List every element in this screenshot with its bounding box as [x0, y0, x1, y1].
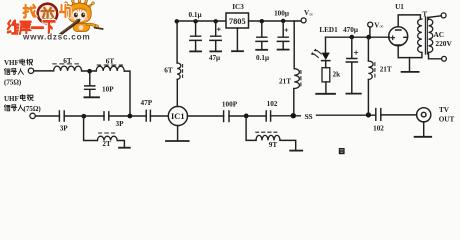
wire to IC1	[150, 115, 168, 117]
wire: down to 9T	[246, 116, 256, 140]
svg-text:47P: 47P	[141, 99, 153, 107]
wire: SS line right	[317, 114, 376, 116]
svg-text:SS: SS	[304, 112, 312, 121]
svg-text:IC1: IC1	[171, 112, 185, 121]
wire IC1 out	[188, 115, 224, 117]
label hao (VHF signal)	[11, 69, 17, 75]
transformer T primary winding	[429, 19, 433, 53]
ground (10P)	[84, 96, 99, 98]
WATERMARK	[8, 0, 103, 41]
label dian (UHF TV)	[20, 95, 25, 101]
svg-text:T: T	[422, 10, 427, 18]
watermark char zhao	[24, 5, 36, 18]
transformer T core	[425, 17, 427, 54]
wire: VHF drop to UHF line	[124, 71, 130, 116]
inductor L5 2T	[97, 136, 117, 140]
regulator IC3 7805 box	[226, 13, 249, 28]
svg-text:7805: 7805	[229, 17, 246, 26]
svg-text:21T: 21T	[380, 66, 392, 74]
svg-text:21T: 21T	[279, 78, 291, 86]
inductor L7 21T (to SS line)	[367, 37, 369, 61]
ground (9T)	[290, 150, 302, 152]
wire: vertical line rail to 6T coil	[176, 21, 178, 63]
watermark lens	[37, 3, 59, 25]
svg-text:0.1μ: 0.1μ	[188, 11, 201, 19]
wire: +V rail from 6T tap to Vcc terminal	[177, 20, 301, 22]
inductor L1 6T (first)	[54, 66, 82, 71]
wire: down to 2T	[84, 116, 98, 140]
svg-text:0.1μ: 0.1μ	[256, 54, 269, 62]
node: rail cap A junction	[193, 19, 197, 23]
label hao (UHF signal)	[11, 105, 17, 111]
node: rail cap C junction	[260, 19, 264, 23]
svg-text:3P: 3P	[116, 120, 125, 128]
label dian (VHF TV)	[20, 59, 25, 65]
label tu (figure)	[339, 148, 345, 154]
terminal: UHF input (75 ohm)	[30, 113, 35, 118]
svg-text:6T: 6T	[164, 67, 173, 75]
capacitor 0.1u (output side)	[256, 21, 267, 50]
label xin (UHF signal)	[4, 105, 10, 111]
terminal Vcc (psu)	[369, 27, 371, 35]
wire	[271, 115, 301, 117]
capacitor 10P to ground	[85, 71, 95, 97]
svg-text:UHF: UHF	[4, 95, 19, 103]
svg-text:OUT: OUT	[439, 116, 455, 124]
terminal Vcc (rail end)	[301, 18, 306, 23]
svg-text:220V: 220V	[435, 39, 452, 48]
capacitor 0.1u (input side)	[190, 21, 201, 51]
node C junction 3P/2T	[82, 114, 87, 119]
ground (cap 0.1u out)	[256, 49, 267, 51]
wire primary top to AC terminal	[429, 16, 442, 20]
terminal AC bottom	[442, 56, 447, 61]
ground (cap 47u)	[210, 50, 221, 52]
svg-text:TV: TV	[439, 106, 450, 114]
svg-text:100μ: 100μ	[274, 9, 289, 17]
terminal AC top	[441, 13, 446, 18]
svg-text:IC3: IC3	[232, 3, 244, 11]
wire UHF in	[36, 115, 60, 117]
svg-text:470μ: 470μ	[343, 26, 358, 34]
ground (470u)	[346, 93, 360, 95]
node: rail cap B junction	[214, 19, 218, 23]
svg-text:www.dzsc.com: www.dzsc.com	[22, 32, 90, 41]
svg-text:10P: 10P	[102, 86, 114, 94]
capacitor 100u electrolytic	[277, 21, 288, 49]
capacitor C 47u electrolytic	[210, 21, 221, 51]
svg-text:2T: 2T	[102, 140, 111, 148]
svg-text:VHF: VHF	[4, 59, 19, 67]
node: rail cap D junction	[281, 19, 285, 23]
inductor L3 6T (vertical, to IC1)	[177, 63, 181, 79]
wire 2T to ground	[117, 141, 124, 148]
wire VHF in	[34, 70, 54, 72]
wire	[64, 115, 104, 117]
ground (7805)	[232, 50, 243, 52]
label xin (VHF signal)	[4, 68, 10, 74]
svg-text:3P: 3P	[60, 124, 69, 132]
inductor L4 21T (from rail down to SS node)	[293, 21, 295, 69]
capacitor 3P (second)	[104, 112, 109, 120]
svg-text:100P: 100P	[222, 101, 238, 109]
wire: 6T to IC1 top	[176, 79, 178, 106]
svg-text:AC: AC	[433, 30, 444, 39]
ground (IC1)	[166, 140, 189, 142]
node H rail/470u	[350, 35, 355, 40]
ground (2k)	[316, 93, 335, 95]
wire to TV OUT	[381, 114, 417, 116]
svg-text:(75Ω): (75Ω)	[24, 105, 42, 113]
wire TV OUT shield to ground	[423, 122, 425, 137]
node G junction 21T-right	[366, 112, 371, 117]
svg-text:(75Ω): (75Ω)	[4, 78, 22, 86]
wire U1 ac in from transformer	[398, 15, 420, 27]
wire	[109, 115, 146, 117]
wire 9T to ground	[280, 140, 296, 150]
capacitor 47P	[146, 110, 150, 121]
inductor L6 9T	[256, 135, 280, 140]
label ru (UHF signal)	[18, 105, 23, 111]
terminal: VHF input (75 ohm)	[28, 68, 33, 73]
wire primary bottom to AC terminal	[429, 53, 442, 59]
resistor R1 2k	[322, 68, 330, 82]
label shi (UHF TV)	[27, 95, 33, 101]
wire	[229, 115, 266, 117]
label ru (VHF signal)	[18, 69, 23, 75]
ground (cap 100u)	[278, 49, 289, 51]
svg-text:102: 102	[267, 100, 278, 108]
transformer T secondary winding	[418, 19, 422, 53]
watermark char pian	[60, 5, 70, 17]
svg-text:102: 102	[373, 125, 384, 133]
node D junction VHF/UHF	[127, 114, 132, 119]
capacitor 100P	[224, 111, 229, 122]
capacitor 470u electrolytic	[346, 37, 357, 93]
wire	[82, 70, 97, 72]
watermark pen handle	[60, 21, 79, 35]
LED LED1	[325, 37, 327, 52]
svg-text:6T: 6T	[63, 57, 72, 65]
svg-text:6T: 6T	[106, 57, 115, 65]
ground (TV OUT)	[415, 136, 432, 138]
label shi (VHF TV)	[27, 59, 33, 65]
svg-text:47μ: 47μ	[209, 54, 220, 62]
capacitor 102 (output)	[376, 109, 381, 121]
ground (2T)	[119, 147, 130, 149]
wire U1 bottom to ground join	[398, 46, 422, 58]
node E junction 100P/9T	[244, 114, 249, 119]
rectifier U1	[389, 27, 408, 46]
svg-text:2k: 2k	[333, 71, 341, 79]
node I rail/21T/Vcc	[366, 35, 371, 40]
inductor L2 6T (second)	[96, 66, 124, 71]
wire: 7805 ground pin	[236, 28, 238, 51]
svg-text:9T: 9T	[269, 141, 278, 149]
connector TV OUT	[417, 108, 431, 122]
svg-text:LED1: LED1	[319, 26, 338, 34]
watermark mascot	[65, 0, 103, 31]
watermark red text weikuyixia	[8, 21, 55, 34]
capacitor 102 (inner)	[266, 111, 270, 121]
wire: LED/psu rail	[326, 36, 390, 38]
amplifier IC1	[168, 106, 187, 125]
node A rail/6T junction	[175, 19, 179, 23]
capacitor 3P (first)	[59, 111, 64, 121]
node B junction 6T/6T/10P	[87, 69, 92, 74]
ground (cap 0.1u)	[190, 50, 201, 52]
node F junction 21T/SS	[291, 113, 296, 118]
svg-text:U1: U1	[395, 3, 404, 11]
wire IC1 bottom to ground	[177, 126, 179, 141]
ground (psu)	[409, 58, 411, 72]
